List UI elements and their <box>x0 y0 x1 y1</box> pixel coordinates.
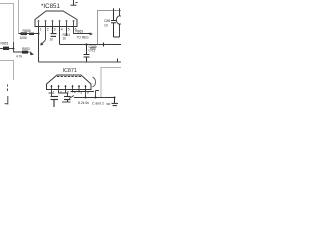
frame box D (faded, bottom-right) <box>101 68 121 98</box>
svg-text:TO REG: TO REG <box>77 36 90 40</box>
frame box A (faded, top-left) <box>0 4 14 43</box>
IC871 pin 3 <box>65 85 67 90</box>
svg-text:1k: 1k <box>63 37 67 41</box>
frame box C (faded, top-right) <box>98 11 122 45</box>
IC851 pin 6 <box>73 20 75 26</box>
wire pin6 right <box>74 27 91 34</box>
frame box B (faded, bottom-left) <box>0 61 14 81</box>
IC871 pin numbers row <box>53 90 89 94</box>
bottom bus y97.5 <box>74 97 115 99</box>
wire below C877 <box>62 101 71 103</box>
IC851 pin 1 <box>38 20 40 26</box>
wire faded vertical to R855 cluster <box>18 0 20 34</box>
IC871 top edge detail <box>57 76 81 78</box>
svg-text:R855: R855 <box>23 29 31 33</box>
resistor on y52 wire <box>22 51 28 54</box>
arrow end pin6 <box>89 32 93 35</box>
junction dot pin5 bus <box>85 97 87 99</box>
capacitor C875 <box>51 97 59 108</box>
junction tick on y62 bus right <box>117 59 119 63</box>
arrow end of y52 wire <box>30 51 35 55</box>
svg-text:4: 4 <box>61 28 63 32</box>
IC871 pin 1 <box>51 85 53 90</box>
junction dot pins on y91.5 bus <box>78 91 80 93</box>
wire joining caps bottom <box>114 36 120 38</box>
wire pin2 right-down <box>59 90 68 97</box>
svg-text:C86: C86 <box>104 19 110 23</box>
svg-text:2: 2 <box>47 28 49 32</box>
IC851 pin 2 <box>45 20 47 26</box>
svg-text:IC871: IC871 <box>63 68 77 74</box>
IC851 pin numbers <box>40 28 77 32</box>
IC851 pin 3 <box>52 20 54 26</box>
svg-text:R863: R863 <box>76 29 84 33</box>
junction right end <box>114 97 116 99</box>
junction dot right <box>95 97 97 99</box>
junction left <box>13 48 15 50</box>
bus wire y62 <box>39 61 122 63</box>
svg-text:5: 5 <box>68 28 70 32</box>
svg-text:100k: 100k <box>20 36 28 40</box>
svg-text:4: 4 <box>74 90 76 94</box>
wire pin1 down <box>51 90 53 97</box>
svg-text:8.2k 5u: 8.2k 5u <box>78 101 89 105</box>
svg-text:C and 2: C and 2 <box>92 102 104 106</box>
arrow on pin2 wire <box>40 27 45 46</box>
wire pins 4-6 bus y91.5 <box>66 90 95 94</box>
wire pin4 down <box>59 27 61 45</box>
small dashes bottom right <box>107 103 111 105</box>
svg-text:R851: R851 <box>1 42 9 46</box>
IC871 pin 4 <box>72 85 74 90</box>
IC871 pin 6 <box>85 85 87 90</box>
junction tick on y44 wire <box>103 43 105 47</box>
capacitor at right end of bottom bus <box>112 98 119 106</box>
capacitor on x113.5 wire <box>111 8 116 37</box>
IC871 package <box>47 75 92 90</box>
svg-text:1: 1 <box>40 28 42 32</box>
svg-text:R86: R86 <box>90 47 96 51</box>
svg-text:5: 5 <box>80 90 82 94</box>
svg-text:R853: R853 <box>22 47 30 51</box>
component second blob <box>29 33 34 35</box>
pin5 stub <box>66 27 68 37</box>
resistor R855 body <box>21 32 28 35</box>
wire pin4 bus y44.5 <box>60 44 122 46</box>
svg-text:4.7k: 4.7k <box>16 55 22 59</box>
transistor circle at right edge <box>116 8 123 37</box>
wire from IC right corner down <box>96 91 100 98</box>
svg-text:10: 10 <box>104 23 108 27</box>
IC871 pin 2 <box>58 85 60 90</box>
svg-text:6: 6 <box>87 90 89 94</box>
transistor circle right of IC871 <box>93 77 96 87</box>
IC851 pin 4 <box>59 20 61 26</box>
svg-text:*IC851: *IC851 <box>41 3 60 10</box>
resistor R855 wire <box>19 33 39 35</box>
wire pin1 lead down to bus <box>38 27 40 63</box>
IC851 pin 5 <box>66 20 68 26</box>
svg-text:1: 1 <box>53 90 55 94</box>
diagonal mark near pin3 <box>69 96 74 99</box>
left wire y48.5 <box>0 48 14 50</box>
svg-text:3: 3 <box>54 28 56 32</box>
capacitor C859 <box>84 45 90 63</box>
ground symbol at top edge <box>71 0 78 5</box>
junction pin1/R855 <box>38 33 40 35</box>
capacitor C877 <box>64 97 71 103</box>
IC851 package <box>35 11 77 27</box>
wire x13.5 down to corner <box>14 42 30 52</box>
wire pin5 junction down <box>85 92 87 98</box>
IC871 pin 5 <box>78 85 80 90</box>
capacitor on pin3 <box>51 27 57 37</box>
tick left of pin1 wire <box>49 92 54 94</box>
dashed faded wire bottom-left <box>5 85 9 105</box>
svg-text:2: 2 <box>60 90 62 94</box>
left resistor R851 body <box>3 47 9 50</box>
svg-text:10: 10 <box>50 38 54 42</box>
capacitor C859 junction <box>85 43 87 45</box>
